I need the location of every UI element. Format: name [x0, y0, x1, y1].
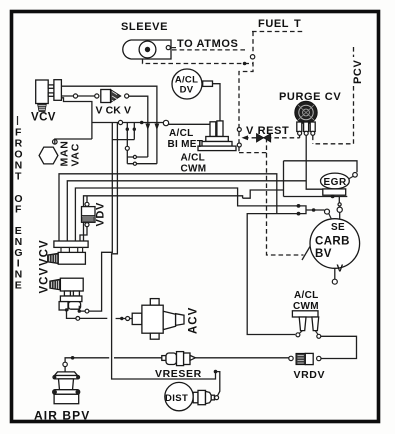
- VCV mid plate: [54, 241, 88, 247]
- DIST body: [165, 382, 193, 410]
- AIR BPV body: [53, 372, 80, 404]
- wire: row D: [84, 196, 243, 241]
- VCV lower right foot: [69, 302, 81, 310]
- svg-text:A/CL: A/CL: [294, 290, 319, 301]
- wire: dv to cwm right tube: [213, 84, 221, 121]
- air bpv node: [63, 362, 67, 366]
- acv feed dot: [120, 317, 123, 320]
- svg-text:BI MET: BI MET: [168, 139, 204, 150]
- VCV lower plate: [60, 296, 82, 302]
- wire: acv feed: [116, 318, 134, 320]
- wire: vcv to vckv: [61, 95, 94, 97]
- junction dot on bimet line: [140, 121, 144, 125]
- FRONT OF ENGINE label: [14, 127, 22, 292]
- svg-text:T: T: [294, 18, 301, 30]
- vrdv left node: [289, 356, 293, 360]
- svg-text:V CK V: V CK V: [96, 105, 132, 117]
- node lower on v-rest dashed vertical: [237, 143, 241, 147]
- inline connector small: [338, 203, 341, 206]
- svg-text:SE: SE: [331, 222, 345, 233]
- wire: dashed from sleeve bottom: [143, 59, 254, 64]
- svg-text:EGR: EGR: [324, 177, 347, 188]
- inline connector ring: [337, 207, 342, 212]
- wire: left foot to vertical: [79, 123, 112, 312]
- svg-text:AIR BPV: AIR BPV: [34, 409, 90, 423]
- man vac node: [53, 140, 58, 145]
- svg-text:V: V: [337, 264, 344, 275]
- svg-text:PCV: PCV: [352, 60, 364, 84]
- VRESER capsule: [162, 352, 196, 366]
- svg-text:VRDV: VRDV: [294, 369, 326, 381]
- svg-text:SLEEVE: SLEEVE: [121, 21, 168, 33]
- purge cv legs: [297, 122, 302, 132]
- wire: purge middle leg down: [306, 136, 323, 190]
- svg-text:VDV: VDV: [95, 202, 107, 226]
- EGR valve: [321, 173, 350, 195]
- sleeve component: [123, 40, 176, 59]
- svg-text:VCV: VCV: [31, 112, 56, 124]
- vrdv right node: [317, 356, 321, 360]
- wire: U2 horizontal: [127, 163, 157, 165]
- VCV lower body: [60, 278, 83, 291]
- egr top port node: [353, 173, 358, 178]
- VCV lower neck tabs: [64, 291, 70, 296]
- svg-text:FUEL: FUEL: [258, 18, 289, 30]
- svg-text:CWM: CWM: [181, 164, 207, 175]
- wire: vdv into plate: [80, 227, 87, 241]
- vdv bottom node: [85, 223, 89, 227]
- v-rest dashed line: [244, 137, 300, 139]
- VCV lower left foot: [59, 302, 68, 310]
- wire: stub right vertical: [133, 123, 135, 140]
- wire: cwm2 right to vrdv: [321, 336, 357, 358]
- wire: dist riser: [216, 372, 220, 396]
- v-rest valve bowtie: [257, 134, 271, 142]
- svg-text:F: F: [15, 204, 22, 216]
- wire: dashed purge right leg: [312, 136, 314, 144]
- wire: U1 horizontal: [127, 156, 148, 158]
- svg-text:TO ATMOS: TO ATMOS: [177, 38, 238, 50]
- VCV lower ribbed cone: [50, 279, 61, 290]
- junction dot dist: [214, 370, 218, 374]
- wire: egr to carb se: [338, 196, 340, 202]
- wire: egr feed from row D: [243, 190, 284, 198]
- wire: carb bottom port: [334, 268, 336, 279]
- wire: dashed stub purge left leg to v-rest line: [299, 136, 301, 138]
- carb se side node: [325, 209, 330, 214]
- VCV mid ribbed cone: [48, 253, 59, 263]
- VDV stub top: [86, 196, 88, 203]
- VDV body: [82, 207, 96, 223]
- bracket merge into carb: [299, 206, 325, 214]
- carb bottom node: [332, 279, 337, 284]
- wire: into carb top: [339, 212, 341, 218]
- acv feed node: [126, 317, 130, 321]
- cwm2 left node: [300, 331, 303, 334]
- wire: vcv lower jog: [61, 98, 92, 139]
- air cleaner CWM stack: [206, 137, 229, 142]
- a/cl dv nib: [203, 81, 213, 86]
- stub arrows below bimet line: [126, 128, 129, 131]
- vckv right node: [125, 94, 129, 98]
- wire: right foot down to air bpv line: [67, 309, 108, 318]
- A/CL DV body: [172, 69, 202, 99]
- svg-text:ACV: ACV: [188, 307, 200, 334]
- wire: a/cl bimet sense line: [92, 122, 163, 124]
- MAN VAC hexagon: [39, 147, 58, 164]
- dist advance diaphragm: [193, 390, 214, 404]
- svg-text:BV: BV: [315, 248, 332, 260]
- svg-text:A/CL: A/CL: [169, 128, 194, 139]
- junction dots at bracket: [297, 204, 301, 208]
- svg-text:CARB: CARB: [315, 236, 350, 248]
- wire: stub left vertical: [126, 123, 128, 164]
- cwm2 right node: [315, 331, 318, 335]
- svg-text:A/CL: A/CL: [181, 153, 206, 164]
- slash at carb bv: [302, 247, 310, 261]
- cwm2 right leg: [312, 317, 319, 331]
- node upper on v-rest dashed vertical: [237, 128, 241, 132]
- svg-text:VCV: VCV: [39, 267, 51, 294]
- svg-text:VCV: VCV: [39, 239, 51, 266]
- ACV body: [132, 299, 184, 340]
- wire: man vac line: [55, 139, 92, 144]
- junction dot on bpv line: [71, 356, 75, 360]
- svg-text:DV: DV: [180, 85, 194, 96]
- vckv left node: [95, 94, 99, 98]
- junction dot: [243, 62, 247, 66]
- purge cv body: [295, 101, 317, 123]
- wire: row E to cwm2: [247, 214, 298, 335]
- svg-text:PURGE CV: PURGE CV: [279, 91, 341, 103]
- check valve VCK V: [101, 90, 121, 103]
- wire: dashed fuel-t vertical: [239, 32, 253, 153]
- v-rest arrowhead: [242, 135, 249, 140]
- air cleaner CWM tubes: [210, 122, 216, 137]
- wire: tie bar: [112, 139, 134, 141]
- dot on merge line: [312, 208, 316, 212]
- inline connector on stub: [125, 146, 129, 150]
- svg-text:DIST: DIST: [165, 393, 188, 404]
- wire: vckv down to U1: [129, 96, 148, 157]
- egr port stub: [349, 176, 354, 179]
- front-of-engine arrow: [17, 116, 19, 125]
- purge leg nodes: [298, 131, 302, 135]
- stub node to carb: [329, 213, 332, 219]
- A/CL CWM 2 body: [292, 311, 318, 317]
- inline node on bimet line: [118, 120, 122, 124]
- svg-text:VAC: VAC: [70, 143, 82, 167]
- wire: bimet node to cwm left tube: [169, 123, 210, 125]
- connector on U2: [133, 162, 136, 165]
- wire: vcv upper to bimet (W1): [61, 86, 156, 164]
- wire: row B: [67, 181, 306, 241]
- VRDV body: [296, 353, 313, 364]
- wire: dashed lower elbow to carb slash: [239, 152, 267, 154]
- connector on U1: [133, 155, 136, 158]
- a/cl bimet node: [163, 120, 168, 125]
- vdv top node: [85, 202, 89, 206]
- wire: row A: [59, 174, 277, 241]
- VCV top body: [36, 80, 62, 112]
- dist port node: [215, 396, 219, 400]
- svg-text:VRESER: VRESER: [155, 368, 202, 380]
- junction dot under egr: [331, 195, 335, 199]
- wire: egr base bottom line: [284, 196, 348, 198]
- wire: row C: [75, 188, 298, 241]
- svg-text:E: E: [15, 280, 22, 292]
- fuel-t dashed underline: [252, 31, 303, 33]
- dashed underline to-atmos: [172, 49, 247, 51]
- wire: air bpv / vreser / vrdv main line: [65, 358, 162, 372]
- inline node: [73, 94, 77, 98]
- flow arrow down: [145, 124, 150, 131]
- pcv dashed line: [353, 47, 355, 57]
- CARB BV body: [310, 219, 360, 269]
- svg-text:T: T: [15, 171, 22, 183]
- cwm2 left leg: [299, 317, 306, 331]
- wire: long vertical B: [112, 123, 216, 380]
- node on fuel-t line: [250, 55, 254, 59]
- VCV mid body: [61, 247, 83, 252]
- flow arrow down: [155, 124, 160, 131]
